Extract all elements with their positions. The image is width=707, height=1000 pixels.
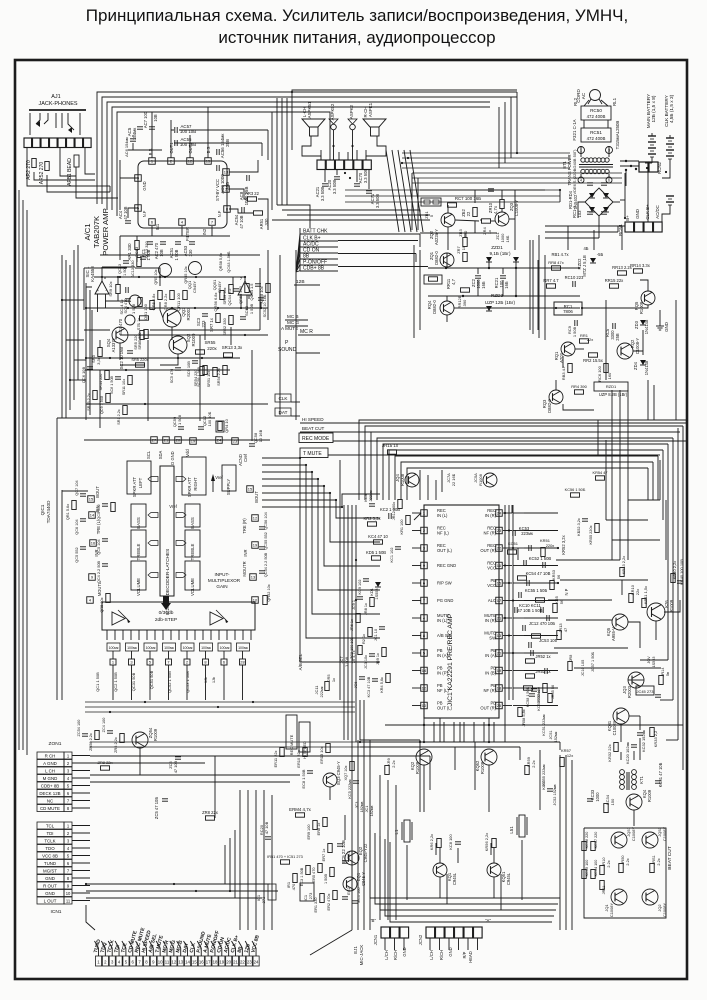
resistor KC34b 100 <box>591 860 598 879</box>
svg-text:1: 1 <box>112 660 114 665</box>
svg-text:1 508: 1 508 <box>177 414 182 425</box>
net 12B <box>294 279 320 285</box>
svg-text:OUT (R): OUT (R) <box>480 548 496 553</box>
ground GND arrow <box>656 322 669 332</box>
svg-text:QC63 1.50Б: QC63 1.50Б <box>227 251 231 273</box>
net RL1 <box>612 97 617 106</box>
svg-text:SR9 10x: SR9 10x <box>108 281 113 296</box>
transistor ZQ3 C1008-Y <box>495 200 519 226</box>
svg-text:R CH: R CH <box>45 753 56 758</box>
junctions jic right <box>504 512 559 654</box>
svg-text:SUPPLY: SUPPLY <box>226 479 231 496</box>
net MC B <box>285 314 308 320</box>
svg-text:B.S: B.S <box>206 146 211 153</box>
transistor KQ1 C945L <box>433 863 457 885</box>
resistor RR2 15.5x <box>583 353 604 363</box>
svg-text:QR52 10x: QR52 10x <box>267 584 271 601</box>
svg-text:16: 16 <box>199 960 204 965</box>
resistor QR4 10 <box>216 418 229 432</box>
resistor QR1 5.6x <box>66 501 76 521</box>
svg-text:QC54 2.2: QC54 2.2 <box>227 289 232 306</box>
resistor KR10 22x <box>629 584 640 602</box>
resistor KR6 2.2x <box>429 834 441 850</box>
svg-text:JCN2: JCN2 <box>418 934 423 945</box>
net Vref <box>211 474 224 492</box>
capacitor AC56 154mk 25B <box>217 134 230 159</box>
svg-text:SOUND: SOUND <box>278 347 297 353</box>
capacitor KC31 47 10B <box>655 762 663 787</box>
svg-text:JACK-PHONES: JACK-PHONES <box>38 101 77 107</box>
svg-text:ER5 470: ER5 470 <box>312 868 316 883</box>
svg-text:Vref: Vref <box>215 475 223 480</box>
capacitor AC21 3.3 50B <box>315 184 328 201</box>
svg-text:KC35 100: KC35 100 <box>585 860 589 877</box>
svg-text:JR52 1x: JR52 1x <box>535 654 551 659</box>
svg-text:472 400B: 472 400B <box>587 114 606 119</box>
svg-text:KC1 102: KC1 102 <box>390 548 394 563</box>
resistor JR52 1x <box>526 654 552 663</box>
wire jack down4 <box>60 148 118 198</box>
svg-text:472 400B: 472 400B <box>587 136 606 141</box>
piezo ASPK2 <box>348 104 357 129</box>
capacitor JC57 1.50B <box>591 652 595 673</box>
capacitor KC20 102mk <box>625 742 637 764</box>
capacitor QC56 104 <box>259 511 268 529</box>
pin 23 <box>232 438 239 445</box>
wire jack down5 <box>85 148 95 174</box>
svg-text:RCN2: RCN2 <box>657 161 662 174</box>
svg-text:KD1: KD1 <box>370 588 374 595</box>
resistor QR56 6.8x <box>213 291 224 312</box>
svg-text:QR1 100: QR1 100 <box>143 303 148 320</box>
wire spk verticals <box>325 170 369 189</box>
zener RZD2 MTZJ 5.1B <box>577 255 596 277</box>
svg-text:QC6 104: QC6 104 <box>75 518 79 534</box>
resistor JR13 47 <box>557 623 568 640</box>
arrows ic2 right <box>176 477 186 578</box>
wire right edge rails2 <box>640 540 678 740</box>
svg-text:POWER AMP: POWER AMP <box>101 208 110 255</box>
capacitor ZC2 1000 16B <box>471 278 486 288</box>
svg-text:47 10B: 47 10B <box>264 821 269 834</box>
resistor SR51 10x <box>207 368 217 388</box>
svg-text:R2003: R2003 <box>186 307 191 320</box>
wire midleft h358 <box>86 357 240 359</box>
capacitor QC7 104 <box>75 479 86 496</box>
svg-text:TDI: TDI <box>46 831 53 836</box>
zener ZZD1 9.1B <box>486 245 519 262</box>
label EJ1 MIC-JACK <box>353 945 364 966</box>
pins under cap row <box>110 659 246 665</box>
svg-text:ER13 10x: ER13 10x <box>319 746 324 763</box>
label QR58 QC63 <box>219 251 231 273</box>
net N P <box>564 588 569 595</box>
svg-text:A/B SEL: A/B SEL <box>298 653 303 670</box>
svg-text:1x: 1x <box>487 230 492 234</box>
pin 14 BIN <box>89 506 100 519</box>
svg-text:QC2 1 50B: QC2 1 50B <box>113 672 118 692</box>
svg-text:PG GND: PG GND <box>437 598 453 603</box>
svg-text:1 50B: 1 50B <box>249 303 254 314</box>
svg-text:16Б: 16Б <box>481 281 486 289</box>
piezo ASPK52 <box>329 103 338 130</box>
wire midleft h308 <box>86 307 268 309</box>
svg-text:BOUT: BOUT <box>95 486 100 498</box>
resistor SR59 10x <box>223 285 233 305</box>
svg-text:R1009: R1009 <box>415 761 420 774</box>
net MC R <box>298 329 330 335</box>
transformer BT1 windings <box>579 146 613 174</box>
svg-text:27: 27 <box>152 438 156 443</box>
svg-text:KR2 3,3x: KR2 3,3x <box>363 516 381 521</box>
capacitor KC58 1.50B <box>526 686 537 707</box>
svg-text:INPUT-: INPUT- <box>214 572 230 577</box>
svg-text:12: 12 <box>171 960 176 965</box>
svg-text:2db-STEP: 2db-STEP <box>155 617 177 623</box>
svg-text:GAIN: GAIN <box>216 584 227 589</box>
svg-text:L/CH: L/CH <box>384 950 389 959</box>
svg-text:NF (R): NF (R) <box>484 531 497 536</box>
transistor JQ2 C1008Y <box>642 889 667 917</box>
capacitor JC12 470 10B <box>523 621 556 631</box>
resistor JR50 2.2x <box>619 856 630 873</box>
label QQ1 C945Y <box>187 281 197 293</box>
net CLK B+ <box>645 204 650 220</box>
resistor JR56 100 <box>537 684 547 704</box>
capacitor AC4 47 10B <box>118 206 131 223</box>
svg-text:Cref: Cref <box>243 453 248 462</box>
svg-text:2.2x: 2.2x <box>607 860 611 867</box>
svg-text:AC6 154мк: AC6 154мк <box>124 137 129 157</box>
connector RCN2 <box>639 161 662 174</box>
net T MUTE <box>300 448 660 458</box>
wire jic right rails <box>505 505 513 700</box>
block SPKR ATT RIGHT <box>182 457 206 497</box>
wire spk1 <box>302 136 321 160</box>
jack contacts <box>30 113 80 135</box>
net D.GND <box>170 451 175 464</box>
svg-text:L CH: L CH <box>45 768 55 773</box>
resistor KR32 22x <box>607 743 618 762</box>
svg-text:VCC: VCC <box>487 566 496 571</box>
pin 2 OUT1 <box>168 142 175 164</box>
box REC MUTE <box>286 715 297 755</box>
label QIC1 TDA7440D <box>40 500 51 523</box>
svg-text:15: 15 <box>192 960 197 965</box>
resistor QR5 10x <box>100 594 110 613</box>
capacitor ZC1 1000 16B <box>495 232 510 242</box>
svg-text:C945L: C945L <box>452 872 457 885</box>
capacitor SC3 223 <box>196 314 208 328</box>
svg-text:QIC1: QIC1 <box>40 504 45 515</box>
capacitor SC52 10 16B <box>258 294 267 317</box>
transistor ZQ2 A562B-Y <box>429 213 455 245</box>
pin 7 IN2 <box>202 219 215 235</box>
capacitor AC9 1000 25B <box>217 165 230 194</box>
resistor RR15 22x <box>605 278 624 288</box>
fuse F321 C-1A <box>572 119 577 140</box>
svg-text:KR55 220x: KR55 220x <box>589 525 593 544</box>
svg-text:JR56 100: JR56 100 <box>537 687 541 703</box>
svg-text:F321 C-1A: F321 C-1A <box>572 119 577 140</box>
capacitor AC7 100 10B <box>143 111 158 129</box>
svg-text:100мк: 100мк <box>164 646 174 650</box>
transistor KQ4 R1009 <box>626 789 652 810</box>
svg-text:Принципиальная схема. Усилител: Принципиальная схема. Усилитель записи/в… <box>86 6 628 25</box>
resistor SR11 10x <box>122 376 132 396</box>
resistor JR12 100x <box>392 500 402 521</box>
transistor EQ3 C945-Y <box>323 761 341 787</box>
svg-text:1: 1 <box>423 511 425 516</box>
arrows ic2 left <box>148 477 158 578</box>
svg-text:GND: GND <box>45 891 55 896</box>
label JC45 cap <box>655 695 661 697</box>
net labels BATT CHK..CDB+8B <box>300 228 345 272</box>
net GND <box>635 209 640 219</box>
resistor XQ7 10x <box>344 762 354 781</box>
svg-text:1: 1 <box>151 159 153 164</box>
resistor ER4 1.50B <box>324 868 334 885</box>
svg-text:100мк: 100мк <box>127 646 137 650</box>
transistor RQ5 R1009 <box>634 291 655 314</box>
wire right col rails <box>606 390 660 560</box>
svg-text:EQ3 C945-Y: EQ3 C945-Y <box>336 761 341 785</box>
svg-text:SR1 2.2x: SR1 2.2x <box>117 409 121 424</box>
vertical labels QC1..QC53 <box>95 670 216 692</box>
wire jic bottom stubs <box>424 722 494 742</box>
capacitor JC53 105 <box>529 638 558 648</box>
svg-text:100мк: 100мк <box>238 646 248 650</box>
svg-text:KC37 220: KC37 220 <box>594 832 598 849</box>
svg-text:"A": "A" <box>485 918 491 923</box>
wire bus mid horizontal <box>272 205 430 228</box>
capacitor AC71 3.3 50B <box>366 191 380 208</box>
wire jack down-left <box>27 148 95 186</box>
svg-text:QR1 5.6x: QR1 5.6x <box>66 504 70 520</box>
diode SC4 470 circle <box>124 295 141 313</box>
capacitor AC55 100 10B <box>175 137 196 147</box>
pin 12 OUT2 <box>187 142 194 164</box>
net T315mAL250B <box>615 121 620 150</box>
svg-text:TAB207K: TAB207K <box>92 215 101 248</box>
box HI SPEED2 <box>299 722 310 759</box>
svg-text:11: 11 <box>66 898 71 903</box>
capacitor KR52 group <box>577 518 599 544</box>
svg-text:RB1 4.7x: RB1 4.7x <box>551 252 569 257</box>
transistor KQ31 C1008Y <box>607 708 629 735</box>
svg-text:NF (L): NF (L) <box>437 688 449 693</box>
resistor ER10 22x <box>296 748 307 768</box>
resistor RR13 22x <box>612 265 633 275</box>
connector JCN1 <box>373 927 409 945</box>
wire reg area <box>538 200 660 410</box>
svg-text:10: 10 <box>158 960 163 965</box>
resistor KR5 56 <box>553 595 564 612</box>
svg-text:RL2: RL2 <box>573 97 578 106</box>
svg-text:QC52 1 50B: QC52 1 50B <box>167 671 172 693</box>
svg-text:TRE (R): TRE (R) <box>242 518 247 534</box>
svg-text:17: 17 <box>497 598 501 603</box>
svg-text:EC2: EC2 <box>347 887 351 894</box>
transistor RQ3 D882-0 <box>542 390 563 413</box>
svg-text:ASPK52: ASPK52 <box>330 103 335 120</box>
svg-text:UZP 8.2B (1Br): UZP 8.2B (1Br) <box>599 392 628 397</box>
transistor ZQ54 R1009 <box>132 727 158 748</box>
resistor KR9 2.2x <box>385 757 396 774</box>
block BASS right <box>185 504 200 529</box>
rectifier bridge RD1-RD4 <box>568 188 613 216</box>
svg-text:21: 21 <box>164 438 168 443</box>
resistor KR13 2.2x <box>620 556 626 577</box>
label 12B right <box>583 246 603 257</box>
svg-text:7806: 7806 <box>563 309 573 314</box>
svg-text:GND: GND <box>402 947 407 956</box>
resistor JRS1 2.2x <box>650 855 661 872</box>
svg-text:C1008Y: C1008Y <box>612 720 617 735</box>
svg-text:1 508: 1 508 <box>123 266 127 276</box>
svg-text:RC51: RC51 <box>590 130 602 135</box>
svg-text:100мк: 100мк <box>146 646 156 650</box>
svg-text:47: 47 <box>563 628 568 632</box>
wire bus mid-left verticals <box>272 98 287 210</box>
svg-text:OUT (L): OUT (L) <box>437 706 453 711</box>
resistor QR5 5.8x <box>151 291 162 311</box>
wire midleft h277 <box>94 276 240 278</box>
wire pins down <box>113 665 243 700</box>
svg-text:SR59 10x: SR59 10x <box>223 287 227 304</box>
wire pa left <box>120 178 138 218</box>
svg-text:ER8 1x: ER8 1x <box>317 823 321 836</box>
svg-text:MC G: MC G <box>287 320 299 325</box>
svg-text:100мк: 100мк <box>109 646 119 650</box>
resistor JR10 2.2x <box>600 858 611 875</box>
resistor SR44 220 <box>99 371 109 391</box>
svg-text:KC3 47 10B: KC3 47 10B <box>367 676 371 697</box>
svg-text:источник питания, аудиопроцесс: источник питания, аудиопроцессор <box>218 28 495 47</box>
capacitor KC55 1.50B <box>519 588 548 598</box>
svg-text:R/CH: R/CH <box>439 950 444 960</box>
svg-text:D882-0: D882-0 <box>432 300 437 314</box>
capacitor QC58 10 16B <box>249 429 263 446</box>
capacitor EC7 100 <box>342 851 351 863</box>
wire zq upper <box>420 189 545 250</box>
connector speakers <box>317 160 371 170</box>
wire stack vert join <box>416 234 420 262</box>
resistor QR52 10x <box>263 584 271 604</box>
resistor KD5 1.50B <box>366 550 386 560</box>
svg-text:3.3 50B: 3.3 50B <box>332 180 337 195</box>
svg-text:JR9 1x: JR9 1x <box>376 653 380 665</box>
capacitor AC51 1.50B <box>169 242 181 261</box>
svg-text:Vdd: Vdd <box>185 449 190 457</box>
wire sic1 loop <box>86 268 160 310</box>
svg-text:10 16B: 10 16B <box>258 429 263 442</box>
net JC7 1.508 <box>339 656 349 667</box>
svg-text:QR4 10: QR4 10 <box>224 418 229 432</box>
net Vdd <box>185 449 190 457</box>
wire left rail 3 <box>26 210 28 755</box>
net JQ5A R1008 <box>473 473 497 487</box>
resistor ZR6 2.2x <box>114 734 124 753</box>
svg-text:GND: GND <box>45 876 55 881</box>
junctions midleft <box>85 276 246 371</box>
svg-text:R2 1x: R2 1x <box>362 634 366 644</box>
pin 27 <box>151 437 158 444</box>
resistor RR11 4.7 <box>424 275 456 289</box>
svg-text:ZR8 22x: ZR8 22x <box>202 810 219 815</box>
transistor JQ53 C1008Y <box>642 826 667 848</box>
svg-text:TCLK: TCLK <box>44 838 55 843</box>
svg-text:QC1 1 50B: QC1 1 50B <box>95 672 100 692</box>
connector ICN1 <box>37 822 90 915</box>
svg-text:R/P: R/P <box>462 951 467 958</box>
capacitor QC55 552 <box>259 532 268 550</box>
svg-text:QC9 1 508: QC9 1 508 <box>100 396 104 414</box>
svg-text:NC: NC <box>47 798 53 803</box>
connector ZON1 label <box>49 741 62 747</box>
svg-text:SR54 220: SR54 220 <box>194 370 198 387</box>
svg-text:20: 20 <box>226 960 231 965</box>
diode KD1 1S553 <box>370 582 381 600</box>
svg-text:2.2x: 2.2x <box>657 858 661 865</box>
plug AC CORD <box>576 89 602 104</box>
resistor ZR3 390 <box>458 228 468 246</box>
svg-text:KC58 1 50Б: KC58 1 50Б <box>526 686 530 707</box>
capacitor JC6 10B <box>354 677 365 689</box>
svg-text:QC7 104: QC7 104 <box>75 479 79 495</box>
resistor AR51 330 <box>254 211 270 229</box>
svg-text:25B: 25B <box>225 139 230 147</box>
svg-text:SW: SW <box>489 636 496 641</box>
svg-text:23: 23 <box>247 960 252 965</box>
svg-text:VCC 8B: VCC 8B <box>42 853 58 858</box>
capacitor KC3 47 10B <box>367 676 378 697</box>
svg-text:12Б (1,5 x 8): 12Б (1,5 x 8) <box>651 95 657 122</box>
svg-text:100мк: 100мк <box>220 646 230 650</box>
svg-text:MTZ J 5,1B: MTZ J 5,1B <box>582 255 587 277</box>
svg-text:222мк: 222мк <box>368 490 373 501</box>
transistor QR5 circle <box>154 264 172 285</box>
transistor JQ1 C1008Y <box>604 889 627 917</box>
svg-text:ER9 100: ER9 100 <box>307 825 311 840</box>
svg-text:273: 273 <box>261 896 266 903</box>
svg-text:T MUTE: T MUTE <box>303 451 322 457</box>
svg-text:220x: 220x <box>207 346 217 351</box>
block IC2 BUS-DECODER-LATCHES <box>160 466 174 615</box>
resistor RC6 100 160 <box>597 364 612 382</box>
pin 24 <box>216 437 223 444</box>
pin 19 <box>190 438 197 445</box>
svg-text:JCN1: JCN1 <box>373 934 378 945</box>
svg-text:KR11 1,5x: KR11 1,5x <box>643 586 648 604</box>
resistor SR3 3.3x <box>91 348 102 365</box>
svg-text:OUT (R): OUT (R) <box>480 706 496 711</box>
resistor KR40 2.2x <box>671 561 677 583</box>
capacitor KC33 1000 <box>587 789 600 802</box>
svg-text:ALC: ALC <box>488 598 496 603</box>
svg-text:ZD4: ZD4 <box>633 361 638 370</box>
svg-text:JR15 1x: JR15 1x <box>382 443 399 448</box>
wire mic wires <box>385 938 478 950</box>
wire left mid stubs <box>62 300 86 380</box>
net JR5 1x <box>325 674 336 691</box>
capacitor JC9 1 <box>352 597 363 610</box>
svg-text:R1009: R1009 <box>647 789 652 802</box>
capacitor KC55b 222mk <box>542 764 546 786</box>
capacitor QC5 552 <box>97 504 108 520</box>
svg-text:TRE (L): TRE (L) <box>96 519 101 534</box>
net JC7A 22 16B <box>442 470 456 492</box>
